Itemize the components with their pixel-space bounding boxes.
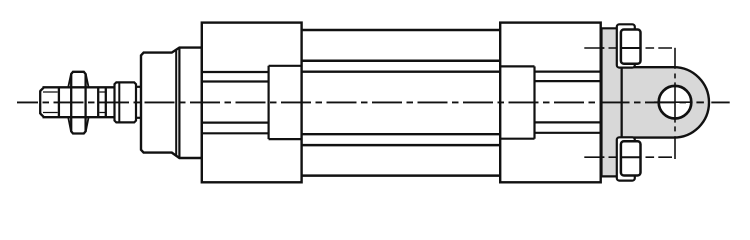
rear cap notch <box>533 66 535 138</box>
hex nut flats fill <box>58 89 100 116</box>
barrel lines <box>302 30 501 176</box>
bolt axis centerline top <box>584 47 672 49</box>
hex nut chamfer facets <box>68 74 88 131</box>
top bolt axis dash over rear cap <box>584 47 604 49</box>
hex nut middle band <box>71 72 85 134</box>
piston rod thread lines (minor dia) <box>43 91 105 93</box>
front end cap <box>202 23 302 183</box>
bottom bolt axis dash over rear cap <box>584 156 604 158</box>
rod bottom line <box>43 116 115 118</box>
piston rod silhouette <box>40 87 114 117</box>
rear cap inner lines <box>500 66 601 138</box>
eye crosshair vertical <box>674 82 676 122</box>
rod top line <box>43 86 115 88</box>
front cap notch <box>268 66 270 139</box>
clevis mounting plate (gray) <box>602 28 622 176</box>
main centerline end dash <box>711 101 729 103</box>
flange seams <box>175 50 177 155</box>
top bolt head <box>621 30 641 64</box>
rod left edge <box>39 91 41 115</box>
front cap inner lines <box>202 66 302 139</box>
bearing bell <box>141 48 202 158</box>
bottom bolt head <box>621 141 641 175</box>
eye crosshair horizontal <box>654 101 690 103</box>
rod left chamfers <box>40 87 44 91</box>
bottom bolt washer <box>617 137 635 180</box>
main centerline end dot <box>696 101 704 103</box>
hex nut outer flat edges <box>58 87 60 117</box>
main centerline <box>17 101 688 103</box>
rod collar <box>115 82 137 122</box>
clevis eye lobe (gray) <box>622 67 709 137</box>
eye hole <box>659 86 692 119</box>
lobe/plate seam <box>621 67 623 137</box>
top bolt seam <box>621 47 641 49</box>
collar seam <box>118 82 120 122</box>
eye vertical centerline dashes <box>674 48 676 69</box>
bottom bolt seam <box>621 156 641 158</box>
top bolt washer <box>617 24 635 67</box>
thread end separator <box>105 87 107 117</box>
rod stub at bell <box>136 86 141 88</box>
rear end cap <box>500 23 601 183</box>
bolt axis centerline bottom <box>584 156 672 158</box>
